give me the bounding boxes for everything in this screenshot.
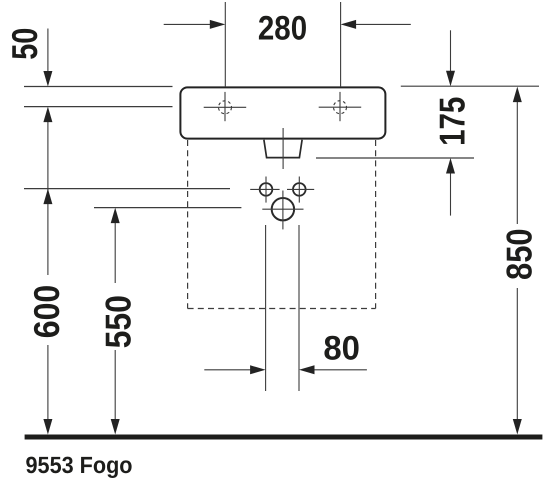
faucet hole left crosshair horizontal [204,106,247,108]
svg-text:175: 175 [431,97,472,146]
dimension 50 lower line with up arrow, continues as 600 dim line [47,122,49,276]
dashed furniture outline right [375,140,377,309]
basin body rounded rect [180,87,385,138]
reference line 550 [94,207,241,209]
dimension 175 upper line with down arrow [450,30,452,71]
dimension 850 upper segment with up arrow [516,102,518,225]
svg-text:80: 80 [323,330,360,368]
mounting hole right crosshair horizontal [287,188,314,190]
mounting hole right crosshair vertical [298,177,300,203]
faucet hole right crosshair horizontal [319,106,362,108]
svg-text:850: 850 [499,228,540,280]
svg-text:550: 550 [98,295,139,348]
svg-text:9553 Fogo: 9553 Fogo [26,452,133,478]
dimension 50 upper line with down arrow [47,29,49,73]
svg-text:600: 600 [26,285,67,339]
mounting hole left crosshair horizontal [250,188,279,190]
reference line 600 [24,188,230,190]
wall line left upper [24,86,173,88]
dimension 80 left arrow line [204,369,251,371]
dashed furniture outline left [187,140,189,309]
wall line right of basin [401,85,539,87]
dimension 80 right arrow line [314,369,367,371]
extension line 80 left [265,225,267,391]
faucet hole left crosshair vertical [224,92,226,121]
extension line faucet right (280 dim) [340,2,342,87]
dimension 600 lower segment with down arrow at floor [47,345,49,420]
faucet hole right dashed circle [334,101,347,114]
faucet hole right crosshair vertical [339,92,341,121]
reference line bottom of spout (175 dim) [316,157,474,159]
dimension 280 right arrow line [356,23,411,25]
dimension 550 upper segment with up arrow [114,223,116,284]
faucet hole left dashed circle [219,101,232,114]
wall line left lower (50mm below rim) [24,106,173,108]
mounting hole left crosshair vertical [265,177,267,203]
floor line [25,435,543,440]
svg-text:280: 280 [258,10,307,48]
dimension 175 lower line with up arrow [450,173,452,216]
drain crosshair horizontal [262,208,303,210]
dimension 850 lower segment with down arrow at floor [516,288,518,420]
dimension 280 left arrow line [164,23,211,25]
dimension 550 lower segment with down arrow at floor [114,350,116,420]
mounting hole right circle [293,183,306,196]
extension line 80 right [298,225,300,391]
mounting hole left circle [260,183,273,196]
overflow spout trapezoid [264,140,302,158]
spout center line [282,128,284,169]
drain circle [272,198,294,220]
extension line faucet left (280 dim) [224,2,226,87]
svg-text:50: 50 [4,28,45,60]
drain crosshair vertical [282,191,284,230]
dashed furniture outline bottom [188,308,376,310]
up arrow 600 at reference line [43,189,52,205]
